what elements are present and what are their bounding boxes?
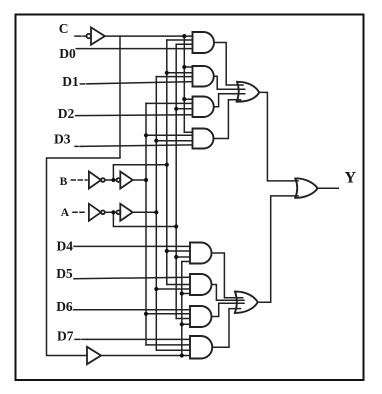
wire AND6 out to OR2: [213, 285, 244, 301]
node dot AND4 in2: [144, 133, 148, 137]
inverter U3 (B first): [89, 172, 105, 189]
svg-text:D7: D7: [57, 329, 74, 344]
and-gate U9: [193, 97, 214, 118]
svg-text:D2: D2: [58, 106, 75, 121]
inverter U5 (A first): [89, 204, 105, 221]
AND gate U9 inputs: [146, 99, 193, 109]
node dot AND6 in4: [180, 291, 184, 295]
svg-text:C: C: [59, 21, 69, 36]
wire AND1 out to OR1: [214, 43, 243, 86]
and-gate U13: [190, 306, 212, 327]
node dot AND5 in3: [174, 255, 178, 259]
or-gate U16 (bottom 4-input OR): [235, 292, 258, 313]
svg-text:D1: D1: [62, 74, 79, 89]
wire AND5 out to OR2: [213, 253, 243, 298]
rail C-complement vertical (top): [183, 36, 185, 132]
wire AND8 out to OR2: [213, 309, 241, 348]
and-gate U7: [193, 32, 215, 53]
rail A vertical: [155, 77, 157, 351]
wire D1: [80, 83, 89, 85]
svg-text:D3: D3: [54, 132, 71, 147]
svg-text:B: B: [60, 176, 68, 188]
inverter U6 (A second, input bubble): [117, 204, 133, 221]
wire C loop down-left-down-right to bottom buffer: [47, 36, 121, 355]
or-gate U15 (top 4-input OR): [237, 82, 260, 102]
AND gate U10 inputs: [146, 132, 193, 140]
and-gate U12: [190, 274, 212, 295]
node dot B inter junction: [111, 178, 115, 182]
and-gate U11: [190, 243, 212, 264]
node dot AND5 in2: [165, 249, 169, 253]
junction dots: [111, 34, 186, 358]
AND gate U8 inputs: [156, 67, 192, 77]
inverter U1 (C buffer, input bubble): [87, 27, 105, 44]
node dot AND7 in2: [144, 312, 148, 316]
rail A-complement vertical: [175, 44, 177, 318]
rail B-complement vertical: [166, 40, 168, 285]
AND gate U7 inputs: [167, 40, 193, 44]
node C input wire: [75, 35, 86, 37]
svg-text:Y: Y: [345, 169, 357, 186]
wire OR1 out down to final OR: [259, 92, 298, 180]
wire C buffer output to AND1 in1: [105, 35, 193, 37]
node dot AND3 in3: [174, 107, 178, 111]
node B input wire: [71, 179, 87, 181]
wire D6: [74, 309, 191, 311]
wire AND2 out to OR1: [214, 76, 245, 89]
wire D5: [74, 277, 190, 279]
rail C vertical (bottom): [181, 262, 183, 356]
wire bottom buffer output to AND8 in4: [101, 355, 190, 357]
node dot C rail top: [182, 34, 186, 38]
wire D4: [74, 245, 190, 247]
svg-text:D5: D5: [56, 266, 73, 281]
AND gate U13 inputs: [146, 314, 190, 325]
node dot AND7 in4: [180, 322, 184, 326]
node dot B rail source: [144, 178, 148, 182]
wire D2: [76, 114, 193, 117]
wire A-complement route down-right to rail: [113, 212, 176, 226]
and-gate U10: [193, 129, 214, 149]
node dot AND2 in1: [182, 65, 186, 69]
wire D3: [75, 145, 82, 147]
svg-text:A: A: [61, 207, 70, 219]
node dot AND2 in3: [165, 71, 169, 75]
wire D0: [76, 48, 192, 50]
node dot AND3 in1: [182, 97, 186, 101]
wire AND3 out to OR1: [214, 94, 245, 107]
wire between B inverters: [105, 179, 117, 181]
or-gate U17 (output OR): [295, 178, 318, 197]
node dot A-complement rail: [174, 224, 178, 228]
AND gate U12 inputs: [156, 285, 190, 294]
wire B true to rail: [133, 179, 146, 181]
node dot AND6 in3: [154, 287, 158, 291]
rail B vertical: [145, 103, 147, 345]
and-gate U14: [190, 336, 212, 359]
AND gate U11 inputs: [167, 251, 190, 262]
node dot AND4 in3: [154, 139, 158, 143]
node dot B-complement rail: [165, 163, 169, 167]
svg-text:D4: D4: [57, 239, 74, 254]
wire AND7 out to OR2: [213, 303, 244, 316]
svg-text:D6: D6: [56, 299, 73, 314]
wire D7: [75, 338, 87, 340]
wire B-complement route up-right to rail: [113, 165, 166, 180]
wire between A inverters: [105, 211, 117, 213]
and-gate U8: [193, 66, 214, 87]
AND gate U14 inputs: [146, 345, 190, 350]
wire AND4 out to OR1: [214, 100, 241, 139]
node dot A rail source: [154, 210, 158, 214]
wire A true to rail: [133, 211, 157, 213]
inverter U4 (B second, input bubble): [117, 172, 133, 189]
node dot C rail bottom: [180, 353, 184, 357]
node dot A inter junction: [111, 210, 115, 214]
wire Y output: [318, 187, 339, 189]
buffer U2 (bottom C buffer): [87, 347, 101, 364]
node A input wire: [73, 211, 87, 213]
svg-text:D0: D0: [59, 46, 76, 61]
wire OR2 out up to final OR: [258, 196, 298, 302]
